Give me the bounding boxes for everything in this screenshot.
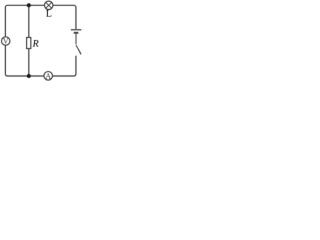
switch S1 blade (open): [76, 45, 81, 54]
battery B1 short plate: [74, 32, 79, 34]
node: junction dot top of middle branch: [27, 3, 31, 7]
wire: right side between battery and switch: [75, 34, 77, 45]
lamp L circle: [45, 1, 53, 9]
lamp L label: [46, 10, 51, 17]
voltmeter V circle: [2, 37, 10, 45]
wire: outer circuit loop: [5, 5, 76, 76]
lamp L cross: [46, 2, 52, 8]
node: junction dot bottom of middle branch: [27, 74, 31, 78]
battery B1 long plate: [71, 29, 81, 31]
wire: middle branch x=29 from top wire to resistor: [28, 5, 30, 37]
resistor R value label: [33, 40, 39, 47]
ammeter A letter: [45, 73, 51, 78]
voltmeter V letter: [3, 38, 9, 43]
wire: middle branch from resistor to bottom wire: [28, 49, 30, 77]
resistor R body: [27, 38, 31, 49]
ammeter A circle: [44, 72, 53, 81]
wire: gap in right side for battery and switch: [73, 29, 79, 56]
